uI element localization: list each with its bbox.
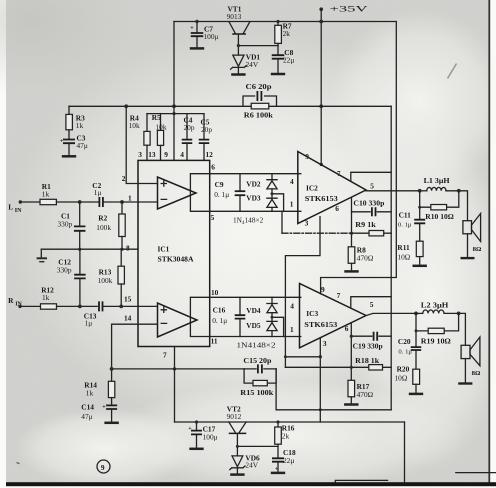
scratch mark (decorative skipped label)	[448, 64, 457, 79]
svg-text:IC2: IC2	[306, 183, 318, 192]
svg-text:C14: C14	[81, 402, 94, 411]
svg-text:R5: R5	[152, 113, 161, 122]
transistor VT1 9013	[229, 22, 250, 34]
wire bias sub-rail	[147, 113, 204, 115]
op-amp IC1 channel A triangle	[158, 177, 197, 209]
wire VT1 base to R7/C8 node	[238, 45, 278, 47]
capacitor C19 330p	[351, 335, 391, 337]
capacitor C18 22u	[272, 458, 284, 461]
capacitor C12 330p	[79, 249, 81, 306]
svg-text:R6 100k: R6 100k	[244, 110, 274, 119]
svg-text:10: 10	[211, 288, 219, 297]
svg-text:100k: 100k	[96, 223, 111, 232]
ground under R8	[344, 270, 358, 272]
wire pin 2 from rail	[126, 106, 157, 183]
wire IC3 pin 7 riser	[351, 297, 391, 309]
diode VD3	[271, 189, 273, 200]
svg-text:10k: 10k	[129, 121, 140, 130]
capacitor C16 coupling box	[190, 297, 300, 336]
resistor R2 100k	[121, 202, 123, 214]
svg-text:9: 9	[321, 285, 325, 294]
svg-text:C15 20p: C15 20p	[243, 356, 271, 365]
svg-text:1: 1	[128, 193, 132, 202]
border right frame line	[488, 0, 490, 482]
svg-text:C20: C20	[398, 337, 411, 346]
resistor R4 10k	[146, 114, 148, 132]
ground under R17	[344, 404, 358, 406]
svg-text:C10 330p: C10 330p	[353, 198, 384, 207]
svg-text:22μ: 22μ	[283, 55, 294, 64]
svg-text:2: 2	[122, 174, 126, 183]
svg-text:0. 1μ: 0. 1μ	[214, 190, 229, 199]
svg-text:1: 1	[290, 200, 294, 209]
svg-text:15: 15	[124, 294, 132, 303]
inductor L1 3uH	[420, 190, 427, 192]
resistor R15 100k	[244, 369, 276, 383]
capacitor C13 1u	[99, 301, 103, 311]
resistor R14 1k	[111, 369, 113, 381]
wire diode junction drop	[272, 317, 284, 336]
wire R9 riser to pin 1 wire	[281, 211, 283, 233]
node L_IN input terminal	[19, 200, 22, 203]
svg-text:+35V: +35V	[330, 5, 368, 14]
svg-text:8Ω: 8Ω	[472, 370, 481, 377]
resistor R13 100k	[120, 249, 122, 266]
svg-text:22μ: 22μ	[283, 456, 294, 465]
svg-text:1N4148×2: 1N4148×2	[237, 340, 276, 349]
ground under R11	[413, 265, 427, 267]
wire IC1 pin 14	[112, 324, 158, 369]
wire feedback line pins 14/7	[112, 368, 245, 370]
wire ground bus pin 8	[41, 248, 138, 250]
svg-text:0. 1μ: 0. 1μ	[398, 221, 412, 228]
svg-text:6: 6	[345, 324, 349, 333]
svg-text:470Ω: 470Ω	[357, 390, 374, 399]
svg-text:L: L	[8, 203, 13, 212]
svg-text:0. 1μ: 0. 1μ	[398, 348, 412, 355]
svg-text:12: 12	[206, 150, 214, 159]
svg-text:9: 9	[164, 150, 168, 159]
resistor R12 1k	[41, 304, 57, 309]
resistor R9 1k	[352, 232, 392, 234]
svg-text:IC1: IC1	[158, 245, 170, 254]
svg-text:330p: 330p	[58, 220, 73, 229]
wire rail A from C6 down right side	[390, 106, 392, 410]
resistor R7 2k	[275, 25, 282, 43]
ground under speaker 2	[458, 382, 472, 384]
svg-text:20p: 20p	[184, 123, 195, 132]
svg-text:+: +	[60, 138, 64, 144]
svg-text:5: 5	[370, 300, 374, 309]
svg-text:6: 6	[335, 204, 339, 213]
op-amp IC1 channel B triangle	[158, 303, 198, 337]
svg-text:470Ω: 470Ω	[357, 253, 374, 262]
svg-text:4: 4	[180, 150, 184, 159]
svg-text:R19 10Ω: R19 10Ω	[421, 337, 451, 346]
wire IC3 output pin 5	[366, 313, 416, 315]
wire stub caption box bottom	[335, 480, 387, 482]
resistor R11 10	[416, 241, 423, 256]
wire IC2 pin 6 feedback riser	[351, 198, 353, 234]
svg-text:2k: 2k	[283, 29, 291, 38]
svg-text:1: 1	[290, 325, 294, 334]
svg-text:9: 9	[101, 463, 105, 472]
svg-text:+: +	[275, 466, 279, 472]
svg-text:C9: C9	[215, 180, 224, 189]
resistor R8 470	[351, 233, 353, 247]
svg-text:47μ: 47μ	[77, 141, 88, 150]
op-amp IC1 STK3048A box	[138, 160, 210, 346]
diode VD5	[271, 313, 273, 323]
wire stub bottom right	[456, 472, 496, 474]
capacitor C6 20p with resistor R6 100k parallel box	[243, 96, 277, 106]
svg-text:C16: C16	[213, 305, 226, 314]
svg-text:11: 11	[211, 336, 218, 345]
wire R1 to C2	[56, 201, 98, 203]
svg-text:STK6153: STK6153	[305, 194, 338, 203]
svg-text:VD3: VD3	[246, 193, 261, 202]
svg-text:IC3: IC3	[306, 309, 318, 318]
resistor R20 10	[413, 369, 420, 384]
svg-text:R20: R20	[397, 364, 410, 373]
wire rail B from top rail to IC3 pin 7	[321, 22, 397, 294]
capacitor C1 330p	[79, 202, 81, 249]
svg-text:R18 1k: R18 1k	[355, 356, 380, 365]
svg-text:3: 3	[138, 150, 142, 159]
diode VD6 zener 24V	[230, 456, 245, 473]
svg-text:24V: 24V	[245, 460, 258, 469]
wire feedback drop to bottom bus	[276, 369, 391, 410]
capacitor C15 20p	[244, 368, 276, 370]
wire input to R1	[20, 201, 40, 203]
wire right drop to bottom	[404, 422, 406, 482]
resistor R5 10k	[160, 114, 162, 131]
svg-text:STK3048A: STK3048A	[158, 255, 195, 264]
svg-text:+: +	[190, 25, 194, 31]
svg-text:8: 8	[126, 243, 130, 252]
ground under C14	[104, 422, 118, 424]
transistor VT2 9012	[229, 422, 246, 432]
ground under C18	[271, 472, 285, 474]
svg-text:100μ: 100μ	[203, 432, 218, 441]
wire +35V secondary rail	[69, 105, 391, 107]
wire R12 to C13	[57, 305, 98, 307]
resistor R10 10	[420, 191, 459, 207]
svg-text:330p: 330p	[57, 266, 72, 275]
svg-text:100μ: 100μ	[204, 32, 219, 41]
svg-text:1μ: 1μ	[85, 318, 93, 327]
svg-text:R2: R2	[98, 214, 107, 223]
inductor L2 3uH	[416, 312, 423, 314]
svg-text:13: 13	[148, 150, 156, 159]
svg-text:100k: 100k	[98, 276, 113, 285]
svg-text:R9 1k: R9 1k	[355, 220, 376, 229]
svg-text:10Ω: 10Ω	[395, 373, 408, 382]
svg-text:L1 3μH: L1 3μH	[424, 176, 450, 185]
svg-text:1N4148×2: 1N4148×2	[233, 215, 264, 226]
resistor R16 2k	[277, 422, 279, 427]
capacitor C8 22u	[272, 55, 285, 59]
ground under VD1	[231, 74, 245, 76]
capacitor C5 20p	[203, 114, 205, 161]
svg-text:0. 1μ: 0. 1μ	[212, 316, 227, 325]
svg-text:VD2: VD2	[246, 180, 261, 189]
capacitor C17 100u	[196, 422, 198, 447]
svg-text:C6 20p: C6 20p	[246, 82, 272, 91]
svg-text:2k: 2k	[282, 431, 290, 440]
svg-text:5: 5	[370, 181, 374, 190]
capacitor C7	[196, 22, 198, 47]
node R_IN input terminal	[18, 305, 21, 308]
svg-text:IN: IN	[15, 208, 22, 214]
resistor R19 10	[416, 313, 459, 331]
svg-text:R: R	[8, 296, 14, 305]
capacitor C3 47u	[63, 140, 75, 144]
svg-text:10Ω: 10Ω	[397, 252, 410, 261]
wire C13 to IC1 pin 15	[104, 305, 158, 307]
wire IC3 pin 3 riser to VT2 line	[319, 338, 321, 422]
ground under VD6	[230, 474, 244, 476]
diode VD4	[271, 297, 273, 304]
wire IC2 pin 7 to rail	[351, 172, 391, 181]
wire IC1 pin 7 riser	[174, 347, 176, 423]
svg-text:R15 100k: R15 100k	[240, 388, 274, 397]
svg-text:7: 7	[337, 291, 341, 300]
capacitor C10 330p	[352, 211, 392, 213]
svg-text:1k: 1k	[86, 388, 94, 397]
wire IC2 pin 3 to IC3 pin 3	[285, 217, 320, 368]
capacitor C2 1u	[99, 197, 103, 207]
svg-text:C19 330p: C19 330p	[353, 342, 383, 351]
svg-text:+: +	[188, 426, 192, 432]
svg-text:1k: 1k	[42, 189, 50, 198]
svg-text:3: 3	[305, 218, 309, 227]
capacitor C14 47u	[106, 405, 117, 409]
ground under R20	[409, 393, 423, 395]
svg-text:9012: 9012	[227, 412, 242, 421]
diode VD2	[271, 174, 273, 181]
svg-text:4: 4	[290, 302, 294, 311]
capacitor C20 0.1u	[415, 331, 417, 369]
svg-text:20p: 20p	[201, 125, 212, 134]
op-amp IC3 STK6153 triangle	[300, 284, 367, 348]
resistor R18 1k	[285, 366, 391, 368]
speaker channel 2 8ohm	[461, 345, 470, 358]
svg-text:VD5: VD5	[246, 321, 261, 330]
svg-text:6: 6	[211, 163, 215, 172]
wire input to R12	[20, 305, 41, 307]
figure number circled 9	[97, 460, 110, 473]
svg-text:R10 10Ω: R10 10Ω	[425, 212, 454, 221]
svg-text:10k: 10k	[156, 123, 167, 132]
wire VT2 collector line	[175, 421, 405, 423]
svg-text:5: 5	[211, 213, 215, 222]
wire +35V riser down to IC2 pin 9	[320, 9, 322, 164]
op-amp IC2 STK6153 triangle	[298, 152, 366, 224]
wire VT2 base to R16/C18 node	[237, 445, 278, 447]
svg-text:9: 9	[305, 152, 309, 161]
diode VD1 zener 24V	[231, 55, 247, 73]
ground at bus left end	[40, 249, 42, 257]
ground under C17	[189, 448, 203, 450]
capacitor C4 20p	[186, 114, 188, 161]
wire C2 to IC1 pin 1	[104, 201, 157, 203]
svg-text:14: 14	[124, 313, 132, 322]
svg-text:47μ: 47μ	[81, 412, 92, 421]
ground under C8	[271, 73, 285, 75]
svg-text:1k: 1k	[76, 121, 84, 130]
svg-text:+: +	[102, 405, 106, 411]
speaker channel 1 8ohm	[463, 221, 472, 234]
capacitor C9 coupling box	[190, 174, 300, 212]
node +35V terminal	[319, 7, 323, 11]
border bottom black band	[6, 482, 496, 486]
svg-text:1k: 1k	[42, 293, 50, 302]
svg-text:4: 4	[290, 177, 294, 186]
svg-text:9013: 9013	[227, 12, 242, 21]
wire rail riser to IC1 pin 9	[173, 22, 175, 161]
ground under C7	[190, 47, 204, 49]
resistor R17 470	[350, 367, 352, 380]
wire diode junction drop	[272, 194, 284, 212]
wire IC3 pin 6 feedback riser	[350, 323, 352, 368]
svg-text:L2 3μH: L2 3μH	[421, 300, 449, 309]
svg-text:7: 7	[163, 351, 167, 360]
svg-text:24V: 24V	[246, 60, 259, 69]
svg-text:3: 3	[323, 339, 327, 348]
ground under C3	[62, 155, 76, 157]
svg-text:1μ: 1μ	[94, 188, 102, 197]
resistor R3 1k	[68, 106, 70, 114]
resistor R1 1k	[40, 199, 56, 204]
svg-text:8Ω: 8Ω	[473, 246, 482, 253]
svg-text:C11: C11	[399, 211, 412, 220]
ground under speaker 1	[461, 257, 475, 259]
wire IC2 output pin 5	[366, 190, 420, 192]
capacitor C11 0.1u	[419, 207, 421, 241]
svg-text:7: 7	[337, 169, 341, 178]
svg-text:STK6153: STK6153	[304, 320, 337, 329]
svg-text:R11: R11	[397, 243, 410, 252]
wire top +35V rail	[174, 21, 396, 23]
svg-text:VD4: VD4	[246, 306, 261, 315]
